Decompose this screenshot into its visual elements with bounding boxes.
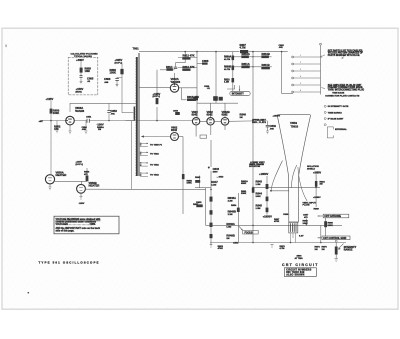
svg-text:-100V: -100V [97, 123, 104, 127]
svg-text:1M: 1M [226, 238, 229, 240]
svg-text:CRT CONTROL GRID: CRT CONTROL GRID [323, 238, 346, 240]
svg-text:1.5M: 1.5M [226, 227, 231, 229]
svg-text:+1850V: +1850V [263, 215, 273, 219]
svg-text:PARTS MARKED WITH BLUE: PARTS MARKED WITH BLUE [328, 54, 360, 57]
svg-text:6242: 6242 [171, 128, 177, 132]
svg-text:IS INTENSITY GATE: IS INTENSITY GATE [328, 105, 349, 108]
svg-text:←GND: ←GND [216, 176, 223, 178]
svg-text:½6AW8: ½6AW8 [171, 80, 181, 84]
svg-text:(BUS): (BUS) [76, 92, 82, 94]
svg-text:TYPICAL VALUES: TYPICAL VALUES [74, 55, 92, 58]
svg-text:R811A: R811A [242, 62, 250, 66]
svg-text:+1850V: +1850V [259, 172, 269, 176]
svg-text:PLATE: PLATE [303, 204, 311, 207]
svg-text:C853: C853 [111, 109, 118, 113]
svg-text:AT TRIG: AT TRIG [295, 257, 304, 260]
svg-text:R845: R845 [256, 203, 263, 207]
svg-text:+BL: +BL [39, 121, 44, 123]
svg-text:+325V: +325V [115, 58, 123, 62]
svg-text:41.7M: 41.7M [224, 58, 230, 61]
svg-text:ALSO SHOWN: ALSO SHOWN [286, 274, 304, 277]
svg-text:2.2M: 2.2M [211, 184, 216, 186]
svg-text:C808: C808 [202, 59, 209, 63]
svg-text:T801: T801 [133, 47, 140, 51]
svg-text:C854: C854 [233, 242, 239, 245]
svg-text:TO V842: TO V842 [150, 174, 159, 177]
svg-text:TIME BASE: TIME BASE [332, 92, 344, 95]
svg-text:C849: C849 [270, 124, 277, 128]
svg-text:C869: C869 [283, 214, 289, 216]
svg-text:TO V859 P1: TO V859 P1 [150, 145, 163, 147]
svg-text:VOLTAGES. . . . . . . . . . .: VOLTAGES. . . . . . . . . . . . . . . . … [56, 223, 96, 226]
svg-text:½6AN8: ½6AN8 [75, 109, 85, 113]
svg-text:4.7M: 4.7M [240, 45, 247, 49]
svg-text:6.3V: 6.3V [299, 235, 304, 237]
svg-text:+1850V: +1850V [313, 197, 321, 199]
svg-text:R849A: R849A [226, 222, 234, 226]
svg-text:DEFL. PLATE: DEFL. PLATE [250, 163, 264, 166]
svg-text:C843: C843 [213, 167, 220, 171]
svg-text:CRT CIRCUIT: CRT CIRCUIT [282, 263, 319, 267]
svg-text:R846: R846 [240, 112, 247, 116]
svg-text:4.7M: 4.7M [280, 247, 285, 250]
svg-text:R814: R814 [166, 65, 173, 69]
svg-text:6242: 6242 [222, 112, 228, 116]
svg-text:EXTERNAL: EXTERNAL [335, 128, 347, 131]
svg-text:-150V: -150V [79, 203, 85, 205]
svg-text:1.5M: 1.5M [256, 208, 261, 210]
svg-text:6242: 6242 [192, 112, 198, 116]
svg-text:CRT CATHODE: CRT CATHODE [324, 215, 341, 218]
svg-text:R848B: R848B [228, 210, 236, 214]
svg-text:RANGE: RANGE [344, 248, 353, 251]
svg-text:FOCUS: FOCUS [245, 232, 254, 234]
svg-text:R812 47K: R812 47K [183, 54, 195, 58]
svg-text:10M: 10M [85, 69, 91, 73]
svg-text:2M: 2M [320, 184, 323, 186]
svg-text:+125V: +125V [46, 97, 54, 101]
svg-text:R811B: R811B [262, 63, 270, 67]
svg-text:R847: R847 [211, 180, 218, 184]
svg-text:41.7M: 41.7M [224, 68, 230, 71]
svg-text:HEATER: HEATER [89, 183, 100, 187]
svg-text:C851: C851 [86, 117, 92, 119]
svg-text:TO V832: TO V832 [150, 164, 159, 166]
svg-text:R852: R852 [196, 202, 202, 204]
svg-text:R842: R842 [195, 176, 201, 179]
svg-text:100K: 100K [187, 183, 193, 185]
svg-text:R843: R843 [256, 179, 263, 183]
svg-text:C816: C816 [173, 110, 179, 112]
svg-text:IF BASE SAWT: IF BASE SAWT [328, 118, 344, 121]
svg-text:SHIELD: SHIELD [307, 169, 315, 171]
svg-text:470K: 470K [218, 247, 224, 250]
svg-text:100K: 100K [303, 223, 309, 225]
svg-text:150K: 150K [110, 70, 116, 74]
svg-text:+1850V: +1850V [313, 172, 321, 174]
svg-text:TIME MARKS: TIME MARKS [328, 111, 342, 114]
svg-text:R854: R854 [231, 204, 237, 207]
svg-text:2.2M: 2.2M [228, 214, 233, 216]
svg-text:2.2M: 2.2M [228, 201, 233, 203]
svg-text:(DCPL): (DCPL) [115, 62, 123, 64]
svg-text:C805: C805 [87, 77, 94, 81]
svg-text:1M: 1M [240, 117, 243, 119]
svg-text:(DCPL): (DCPL) [76, 164, 84, 166]
svg-text:680K: 680K [241, 183, 247, 185]
svg-text:HEATER: HEATER [56, 173, 67, 177]
svg-text:R849B: R849B [226, 234, 234, 238]
svg-text:100K: 100K [53, 111, 59, 115]
svg-text:R869: R869 [314, 209, 320, 211]
svg-text:R844: R844 [256, 192, 263, 196]
svg-text:side of this page.: side of this page. [56, 229, 75, 232]
svg-text:+150V: +150V [76, 87, 84, 91]
svg-text:1M: 1M [98, 129, 101, 131]
svg-text:1000: 1000 [213, 172, 219, 174]
svg-text:THRU INTERCONNECTING PLUG: THRU INTERCONNECTING PLUG [328, 90, 365, 92]
svg-text:DEFL. PLATE: DEFL. PLATE [252, 121, 266, 124]
svg-text:(DCPL): (DCPL) [153, 96, 161, 98]
svg-text:R848A: R848A [228, 196, 236, 200]
svg-text:6242: 6242 [207, 112, 213, 116]
svg-text:1.5M: 1.5M [256, 184, 261, 186]
svg-text:100K: 100K [256, 196, 262, 198]
svg-text:470: 470 [54, 127, 59, 131]
svg-text:C806: C806 [104, 77, 111, 81]
svg-text:T5610: T5610 [291, 124, 299, 128]
svg-text:CONNECTOR PLATE CONTACTS: CONNECTOR PLATE CONTACTS [325, 94, 360, 97]
svg-text:INTENSITY: INTENSITY [232, 94, 244, 96]
svg-text:V859: V859 [290, 121, 297, 125]
svg-text:1M: 1M [315, 249, 318, 251]
svg-text:TO V822: TO V822 [150, 154, 159, 156]
svg-text:R815 47K: R815 47K [187, 95, 199, 99]
svg-text:1.2M: 1.2M [224, 82, 229, 84]
svg-text:R813 47K: R813 47K [183, 65, 195, 69]
svg-text:+300V: +300V [76, 58, 84, 62]
svg-text:R810A: R810A [242, 52, 250, 56]
svg-text:2M: 2M [322, 249, 325, 251]
svg-text:R810B: R810B [262, 52, 270, 56]
svg-text:220K: 220K [328, 225, 334, 227]
svg-text:470K: 470K [274, 220, 280, 223]
svg-text:+1850V: +1850V [273, 116, 281, 118]
svg-text:controls positioned under cond: controls positioned under conditions [56, 220, 97, 223]
svg-text:330K: 330K [241, 193, 247, 195]
svg-text:TYPE 561 OSCILLOSCOPE: TYPE 561 OSCILLOSCOPE [39, 260, 100, 264]
